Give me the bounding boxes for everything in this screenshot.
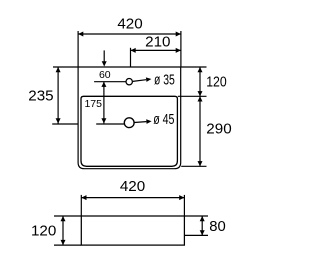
faucet hole circle &#248;35 xyxy=(126,79,132,85)
faucet hole centerline xyxy=(94,81,126,83)
svg-text:120: 120 xyxy=(31,223,56,240)
extension line right at basin top edge for 120 dim xyxy=(181,66,207,68)
top edge extension to the left for 235 dim xyxy=(53,66,78,68)
svg-text:420: 420 xyxy=(117,16,142,33)
dimension 120 (right) line xyxy=(199,67,201,96)
dimension 210 line xyxy=(131,49,181,51)
svg-text:ø 45: ø 45 xyxy=(153,111,174,128)
dimension 120 (bottom) line xyxy=(62,216,64,245)
dimension 175 line xyxy=(103,82,105,124)
dimension 60 upper arrow xyxy=(103,50,105,62)
235 lower extension line xyxy=(52,123,77,125)
dimension 420 (bottom) line xyxy=(81,197,184,199)
svg-text:120: 120 xyxy=(206,73,227,90)
extension line right of 420/210 dims xyxy=(180,31,182,67)
dimension 420 (top) line xyxy=(78,33,181,35)
drain hole circle &#248;45 xyxy=(124,118,134,128)
svg-text:235: 235 xyxy=(28,88,53,105)
pedestal outline (front view) xyxy=(81,216,184,245)
dimension 235 line xyxy=(57,67,59,124)
extension lines right for 80 dim xyxy=(184,215,208,217)
svg-text:60: 60 xyxy=(99,69,111,81)
svg-text:290: 290 xyxy=(206,120,231,137)
svg-text:210: 210 xyxy=(145,34,170,51)
extension line left for 420 bottom dim xyxy=(80,195,82,216)
extension line left of 420 dim xyxy=(77,31,79,67)
leader arrow for &#248;45 xyxy=(134,121,146,124)
extension lines left for 120 bottom dim xyxy=(54,215,81,217)
dimension 290 line xyxy=(199,96,201,166)
dimension 80 line xyxy=(201,216,203,235)
svg-text:80: 80 xyxy=(209,218,226,235)
extension line right at bowl top edge for 120/290 dims xyxy=(178,95,207,97)
svg-text:175: 175 xyxy=(84,98,102,110)
drain hole centerline xyxy=(96,123,124,125)
svg-text:ø 35: ø 35 xyxy=(154,71,175,88)
basin outer outline (top view) xyxy=(78,67,181,169)
extension line for 210 at faucet hole xyxy=(130,48,132,67)
basin bowl inner outline (top view) xyxy=(81,96,177,166)
extension line right at basin bottom for 290 dim xyxy=(181,165,206,167)
svg-text:420: 420 xyxy=(120,178,145,195)
extension line right for 420 bottom dim xyxy=(183,195,185,216)
leader arrow for &#248;35 xyxy=(133,80,146,82)
